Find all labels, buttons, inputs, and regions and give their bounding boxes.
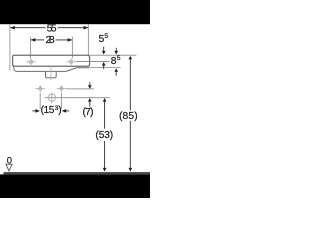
svg-text:5: 5: [104, 33, 108, 40]
svg-text:5: 5: [117, 55, 121, 62]
svg-text:(53): (53): [95, 130, 113, 141]
svg-text:(85): (85): [119, 111, 138, 122]
svg-text:55: 55: [47, 24, 57, 35]
svg-text:): ): [58, 105, 61, 116]
svg-text:28: 28: [46, 35, 56, 46]
svg-text:(7): (7): [83, 107, 94, 118]
svg-text:(15: (15: [41, 105, 55, 116]
svg-text:0: 0: [7, 155, 12, 166]
